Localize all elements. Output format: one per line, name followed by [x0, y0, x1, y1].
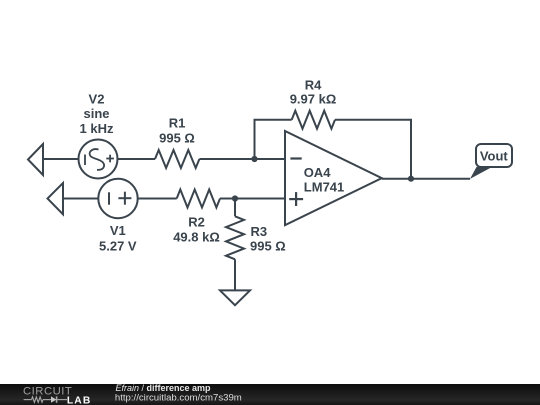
- svg-text:http://circuitlab.com/cm7s39m: http://circuitlab.com/cm7s39m: [115, 393, 242, 404]
- svg-text:CIRCUIT: CIRCUIT: [23, 386, 72, 398]
- svg-text:Efrain / difference amp: Efrain / difference amp: [116, 383, 212, 393]
- svg-text:R2: R2: [188, 214, 205, 229]
- svg-text:OA4: OA4: [304, 165, 332, 180]
- svg-text:R3: R3: [251, 224, 268, 239]
- svg-text:R1: R1: [169, 116, 186, 131]
- svg-text:995 Ω: 995 Ω: [250, 238, 286, 253]
- svg-text:9.97 kΩ: 9.97 kΩ: [290, 91, 337, 106]
- svg-text:V1: V1: [110, 223, 126, 238]
- svg-text:sine: sine: [83, 106, 109, 121]
- svg-text:LAB: LAB: [67, 395, 91, 405]
- svg-text:5.27 V: 5.27 V: [99, 239, 137, 254]
- svg-text:Vout: Vout: [480, 148, 509, 163]
- svg-text:LM741: LM741: [304, 179, 344, 194]
- svg-text:49.8 kΩ: 49.8 kΩ: [173, 229, 220, 244]
- svg-text:V2: V2: [89, 92, 105, 107]
- svg-text:1 kHz: 1 kHz: [80, 121, 114, 136]
- svg-text:R4: R4: [305, 77, 322, 92]
- svg-text:995 Ω: 995 Ω: [159, 130, 195, 145]
